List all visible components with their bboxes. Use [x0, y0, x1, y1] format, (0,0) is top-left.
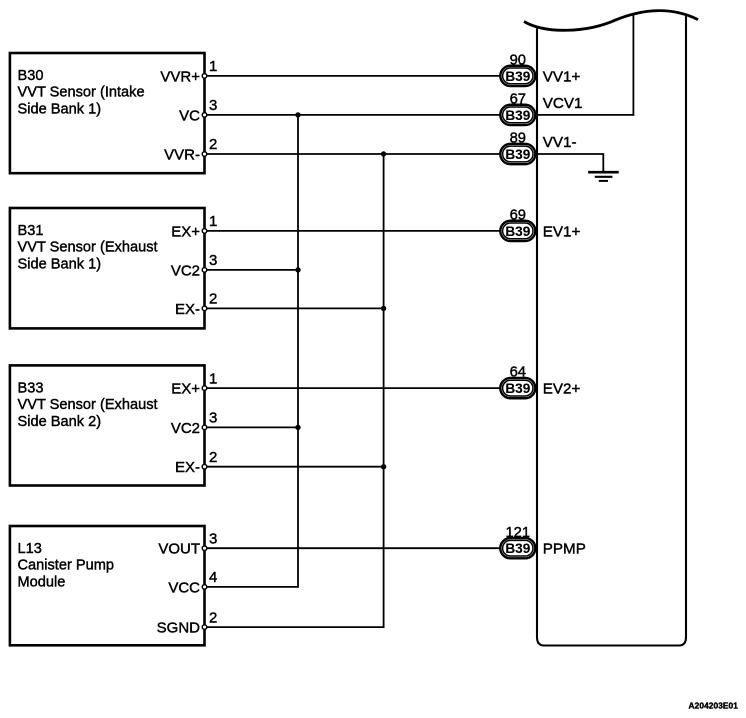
- svg-text:EX+: EX+: [171, 223, 200, 240]
- svg-text:B33: B33: [18, 380, 44, 396]
- wire VVR- bus vertical (B30-2 down to L13-2): [383, 154, 385, 628]
- svg-text:B39: B39: [505, 381, 530, 396]
- wire VCV1 internal horizontal: [537, 114, 634, 116]
- pin 3 VC of B30: [179, 97, 217, 124]
- svg-text:B39: B39: [505, 147, 530, 162]
- junction VVR- bus at B33-EX-: [381, 464, 386, 469]
- wire EX- B33-2 to VVR- bus: [207, 466, 384, 468]
- svg-text:VVR+: VVR+: [160, 68, 200, 85]
- svg-text:1: 1: [209, 213, 217, 230]
- pin 3 VC2 of B31: [171, 252, 218, 279]
- pin 2 VVR- of B30: [164, 136, 217, 163]
- svg-text:4: 4: [209, 569, 217, 586]
- pin 1 VVR+ of B30: [160, 58, 217, 85]
- svg-text:VC2: VC2: [171, 262, 200, 279]
- svg-text:VCC: VCC: [168, 579, 200, 596]
- pin 3 VC2 of B33: [171, 410, 218, 437]
- pin 2 EX- of B31: [175, 291, 217, 318]
- svg-text:2: 2: [209, 291, 217, 308]
- svg-text:EX-: EX-: [175, 459, 200, 476]
- svg-text:B39: B39: [505, 69, 530, 84]
- svg-text:VVT Sensor (Intake: VVT Sensor (Intake: [18, 85, 145, 101]
- svg-text:Canister Pump: Canister Pump: [18, 558, 115, 574]
- svg-text:90: 90: [510, 53, 526, 69]
- component box B30 VVT Sensor (Intake Side Bank 1): [10, 53, 205, 173]
- svg-text:VV1-: VV1-: [543, 134, 577, 151]
- svg-text:L13: L13: [18, 541, 42, 557]
- junction VC bus at B33-VC2: [295, 425, 300, 430]
- pin 2 SGND of L13: [157, 609, 218, 636]
- svg-text:A204203E01: A204203E01: [689, 701, 739, 711]
- junction VVR- bus at B30-VVR-: [381, 151, 386, 156]
- svg-text:2: 2: [209, 136, 217, 153]
- wire EX- B31-2 to VVR- bus: [207, 307, 384, 309]
- svg-text:EV1+: EV1+: [543, 223, 581, 240]
- wire VVR+ B30-1 to B39-90: [207, 75, 501, 77]
- connector B39 pin 90 net VV1+: [500, 53, 535, 87]
- svg-text:VVT Sensor (Exhaust: VVT Sensor (Exhaust: [18, 397, 158, 413]
- wire VVR- B30-2 to B39-89: [207, 153, 501, 155]
- svg-text:B30: B30: [18, 68, 44, 84]
- svg-text:Side Bank 1): Side Bank 1): [18, 101, 102, 117]
- svg-text:B39: B39: [505, 108, 530, 123]
- connector B39 pin 89 net VV1-: [500, 131, 535, 165]
- svg-text:SGND: SGND: [157, 620, 201, 637]
- ECM B39 outline (torn wavy top, rounded bottom): [524, 11, 698, 646]
- pin 3 VOUT of L13: [158, 530, 217, 557]
- svg-text:VVT Sensor (Exhaust: VVT Sensor (Exhaust: [18, 240, 158, 256]
- svg-text:EX+: EX+: [171, 381, 200, 398]
- component box B33 VVT Sensor (Exhaust Side Bank 2): [10, 365, 205, 485]
- svg-text:67: 67: [510, 92, 526, 108]
- wire VC2 B31-3 to VC bus: [207, 269, 298, 271]
- svg-text:89: 89: [510, 131, 526, 147]
- svg-text:VC2: VC2: [171, 420, 200, 437]
- svg-text:1: 1: [209, 58, 217, 75]
- svg-text:B39: B39: [505, 541, 530, 556]
- wire VC B30-3 to B39-67: [207, 114, 501, 116]
- svg-text:Side Bank 2): Side Bank 2): [18, 414, 102, 430]
- connector B39 pin 64 net EV2+: [500, 365, 535, 399]
- wire EX+ B33-1 to B39-64: [207, 387, 501, 389]
- svg-text:69: 69: [510, 208, 526, 224]
- component box B31 VVT Sensor (Exhaust Side Bank 1): [10, 208, 205, 328]
- svg-text:B39: B39: [505, 224, 530, 239]
- svg-text:3: 3: [209, 530, 217, 547]
- component box L13 Canister Pump Module: [10, 526, 205, 645]
- wire VC2 B33-3 to VC bus: [207, 426, 298, 428]
- wire VC bus vertical (B30-3 down to L13-4): [297, 115, 299, 588]
- svg-text:1: 1: [209, 370, 217, 387]
- svg-text:2: 2: [209, 449, 217, 466]
- svg-text:3: 3: [209, 410, 217, 427]
- svg-text:3: 3: [209, 97, 217, 114]
- pin 1 EX+ of B33: [171, 370, 217, 397]
- pin 1 EX+ of B31: [171, 213, 217, 240]
- svg-text:VV1+: VV1+: [543, 68, 581, 85]
- svg-text:Side Bank 1): Side Bank 1): [18, 256, 102, 272]
- pin 2 EX- of B33: [175, 449, 217, 476]
- svg-text:121: 121: [505, 525, 530, 541]
- wire VCC L13-4 to VC bus: [207, 586, 298, 588]
- svg-text:VCV1: VCV1: [543, 95, 583, 112]
- junction VC bus at B30-VC: [295, 112, 300, 117]
- wire VCV1 internal vertical to torn top: [632, 13, 634, 116]
- pin 4 VCC of L13: [168, 569, 217, 596]
- svg-text:VC: VC: [179, 107, 200, 124]
- svg-text:Module: Module: [18, 574, 66, 590]
- svg-text:B31: B31: [18, 223, 44, 239]
- connector B39 pin 69 net EV1+: [500, 208, 535, 242]
- svg-text:2: 2: [209, 609, 217, 626]
- wire SGND L13-2 to VVR- bus: [207, 626, 384, 628]
- ground symbol: [588, 172, 619, 181]
- wire VV1- internal to ground: [537, 154, 603, 172]
- wire VOUT L13-3 to B39-121: [207, 547, 501, 549]
- svg-text:VVR-: VVR-: [164, 146, 200, 163]
- junction VVR- bus at B31-EX-: [381, 306, 386, 311]
- svg-text:PPMP: PPMP: [543, 541, 586, 558]
- connector B39 pin 67 net VCV1: [500, 92, 535, 126]
- wire EX+ B31-1 to B39-69: [207, 230, 501, 232]
- svg-text:EV2+: EV2+: [543, 381, 581, 398]
- svg-text:EX-: EX-: [175, 301, 200, 318]
- connector B39 pin 121 net PPMP: [500, 525, 535, 559]
- svg-text:64: 64: [510, 365, 526, 381]
- junction VC bus at B31-VC2: [295, 267, 300, 272]
- svg-text:3: 3: [209, 252, 217, 269]
- svg-text:VOUT: VOUT: [158, 541, 200, 558]
